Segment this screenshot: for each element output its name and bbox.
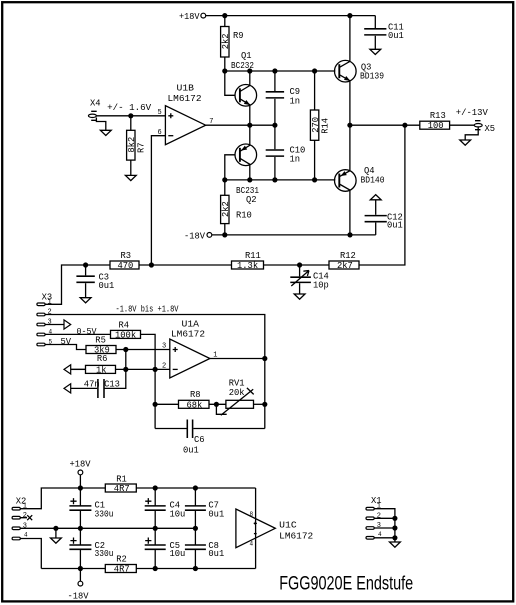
supply -18V bottom [68, 569, 90, 602]
capacitor C14 trimmer [290, 265, 329, 294]
wire R3 to R11 [139, 264, 232, 266]
ground below R7 [125, 175, 136, 180]
svg-text:LM6172: LM6172 [279, 531, 313, 541]
svg-text:10p: 10p [313, 280, 329, 290]
wire -18V rail [212, 234, 376, 236]
svg-text:7: 7 [209, 118, 213, 126]
wire R9 bottom to Q1 base branch [225, 57, 235, 95]
wire Q2 base branch [225, 155, 235, 180]
resistor R12 [329, 251, 359, 271]
node X1 pin4 [392, 535, 397, 540]
node C3 [83, 262, 88, 267]
svg-text:330u: 330u [95, 549, 114, 559]
arrow X3 pin3 [64, 320, 71, 329]
svg-text:R1: R1 [116, 475, 127, 485]
node C4/C5 mid [153, 526, 158, 531]
node C7/C8 mid [193, 526, 198, 531]
ground below C14 [294, 294, 305, 299]
wire C6 right lead [193, 428, 264, 430]
resistor R8 [179, 390, 210, 410]
node Q3/Q4 emitters [347, 123, 352, 128]
node RV1/output column [262, 402, 267, 407]
svg-text:68k: 68k [187, 400, 203, 410]
wire X3 pin4 to R4 [45, 333, 110, 335]
wire C13 left [71, 387, 97, 389]
capacitor C1 [69, 488, 113, 528]
capacitor C6 [183, 420, 205, 456]
wire X3 pin3 [45, 324, 64, 326]
connector X4 [88, 99, 152, 121]
svg-text:0u1: 0u1 [183, 446, 199, 456]
svg-text:100: 100 [428, 121, 444, 131]
svg-text:-18V: -18V [184, 231, 206, 241]
wire X2 pin4 to bottom rail [20, 539, 41, 569]
wire X2 pin2 nc [20, 515, 32, 520]
resistor R10 [221, 180, 252, 235]
svg-text:R14: R14 [320, 118, 330, 134]
svg-text:470: 470 [118, 261, 134, 271]
svg-text:3: 3 [377, 522, 381, 530]
svg-text:R3: R3 [121, 251, 132, 261]
svg-text:2: 2 [23, 512, 27, 520]
svg-text:330u: 330u [95, 509, 114, 519]
svg-text:R11: R11 [245, 251, 261, 261]
svg-text:1k: 1k [96, 366, 107, 376]
svg-text:U1B: U1B [177, 84, 195, 94]
wire Q1 collector line y=71 [225, 70, 335, 72]
svg-text:10u: 10u [170, 549, 186, 559]
wire X4 to pin 5 [96, 115, 165, 117]
node +18V rail [78, 485, 83, 490]
resistor R1 [105, 475, 136, 495]
svg-text:2: 2 [162, 363, 166, 371]
svg-text:3: 3 [48, 318, 52, 326]
node X4/R7 [128, 113, 133, 118]
svg-text:4: 4 [24, 531, 28, 538]
ground mid rail [51, 538, 62, 543]
svg-text:+18V: +18V [70, 460, 92, 470]
op-amp U1C power section [236, 488, 313, 569]
arrow at C13 [64, 384, 71, 393]
node R14 bottom [312, 177, 317, 182]
node Q2 collector [247, 177, 252, 182]
wire R12 to output node [359, 125, 405, 265]
node Q4 collector [347, 232, 352, 237]
wire X2 pin3 mid rail [20, 527, 195, 529]
svg-text:R4: R4 [119, 321, 130, 331]
svg-text:0u1: 0u1 [99, 281, 115, 291]
svg-text:R10: R10 [236, 211, 252, 221]
wire U1A output [210, 358, 265, 360]
capacitor C11 [364, 16, 404, 50]
svg-text:U1A: U1A [182, 320, 200, 330]
svg-text:R9: R9 [233, 31, 244, 41]
resistor R6 [86, 354, 116, 375]
svg-text:LM6172: LM6172 [168, 94, 202, 104]
capacitor C7 [185, 488, 224, 528]
connector X1 [366, 496, 382, 539]
wire X1 pin4 [374, 537, 395, 539]
node X1 pin3 [392, 525, 397, 530]
wire top rail [20, 488, 255, 509]
capacitor C10 [266, 125, 306, 180]
resistor R3 [110, 251, 139, 271]
svg-text:R8: R8 [190, 390, 201, 400]
node R6/C13 column [123, 367, 128, 372]
wire R6 to pin 2 [116, 368, 170, 370]
svg-text:+18V: +18V [179, 12, 200, 22]
resistor R7 [127, 116, 147, 176]
svg-text:R7: R7 [136, 142, 146, 153]
op-amp U1B [158, 84, 214, 145]
svg-text:U1C: U1C [279, 521, 297, 531]
capacitor C12 [365, 200, 403, 235]
svg-text:0u1: 0u1 [208, 549, 224, 559]
svg-text:C6: C6 [194, 435, 205, 445]
node C7 top [193, 485, 198, 490]
wire X1 pin2 [374, 517, 395, 519]
svg-text:0-5V: 0-5V [77, 327, 98, 337]
svg-text:LM6172: LM6172 [171, 330, 205, 340]
svg-text:-18V: -18V [68, 592, 90, 602]
svg-text:2k2: 2k2 [221, 201, 231, 217]
capacitor C9 [266, 71, 300, 125]
resistor R14 [310, 71, 330, 180]
wire R8 to RV1 [209, 403, 226, 405]
arrow at R6 [64, 365, 86, 374]
wire R11 to R12 [264, 264, 330, 266]
supply +18V bottom [70, 460, 92, 489]
ground below X5 [460, 140, 471, 145]
svg-text:10u: 10u [170, 509, 186, 519]
wire X3 pin5 to R5 [45, 345, 86, 350]
svg-text:20k: 20k [229, 388, 245, 398]
svg-text:4: 4 [250, 541, 254, 548]
wire bottom rail [41, 568, 255, 570]
connector X5 [456, 108, 495, 134]
transistor Q1 [231, 51, 257, 125]
node Q1 collector [247, 68, 252, 73]
wire feedback line left [45, 265, 110, 304]
svg-text:R5: R5 [95, 336, 106, 346]
svg-text:C13: C13 [104, 380, 120, 390]
wire X5 ground hook [465, 127, 478, 140]
svg-text:4R7: 4R7 [114, 565, 130, 575]
capacitor C13 [84, 379, 120, 398]
svg-text:0u1: 0u1 [388, 31, 404, 41]
svg-text:BD140: BD140 [361, 175, 385, 185]
node C10 bottom [272, 177, 277, 182]
svg-text:BC232: BC232 [231, 61, 254, 71]
wire R5 to pin 3 [116, 349, 170, 351]
svg-text:+/-13V: +/-13V [456, 108, 489, 118]
wire emitters mid line [206, 124, 275, 126]
svg-text:X5: X5 [485, 124, 496, 134]
wire +18V rail [206, 15, 376, 17]
svg-text:X4: X4 [90, 99, 101, 109]
ground above C12 [370, 195, 381, 200]
svg-text:4R7: 4R7 [114, 484, 130, 494]
resistor R13 [420, 111, 450, 131]
capacitor C3 [76, 265, 114, 298]
svg-text:FGG9020E Endstufe: FGG9020E Endstufe [279, 574, 413, 595]
capacitor C2 [69, 528, 113, 568]
capacitor C4 [145, 488, 186, 528]
node RV1 wiper [214, 402, 219, 407]
node C1 mid [78, 526, 83, 531]
svg-text:Q2: Q2 [246, 195, 257, 205]
node pin6 drop [149, 262, 154, 267]
svg-text:R2: R2 [116, 555, 127, 565]
node pin3 junction [123, 347, 128, 352]
resistor R4 [111, 321, 141, 341]
connector X2 [12, 496, 28, 539]
wire X1 pin1 [374, 509, 395, 542]
svg-text:R6: R6 [97, 354, 108, 364]
wire C6 left lead [155, 428, 187, 430]
capacitor C5 [145, 528, 186, 568]
node output/pin2 rail [262, 356, 267, 361]
svg-text:+/- 1.6V: +/- 1.6V [107, 103, 152, 113]
wire R4 to pin2 column [141, 334, 156, 428]
svg-text:1: 1 [23, 503, 27, 511]
node C9 top [272, 68, 277, 73]
resistor R5 [86, 336, 116, 356]
resistor R11 [232, 251, 264, 271]
svg-text:1.3k: 1.3k [237, 261, 258, 271]
svg-text:1: 1 [377, 503, 381, 511]
node Q1/Q2 emitters [247, 123, 252, 128]
svg-text:100k: 100k [115, 331, 136, 341]
transistor Q4 [335, 125, 385, 235]
svg-text:5V: 5V [61, 337, 72, 347]
node C9/C10 mid [272, 123, 277, 128]
svg-text:8: 8 [250, 511, 254, 518]
svg-text:2: 2 [377, 512, 381, 520]
wire R9 top lead [224, 16, 226, 27]
node R10 top [222, 177, 227, 182]
svg-text:0u1: 0u1 [387, 221, 403, 231]
wire Q2 collector line y=179.9 [225, 179, 335, 181]
supply +18V terminal [179, 12, 206, 22]
node C8 bottom [193, 566, 198, 571]
ground below X4 [100, 130, 111, 135]
node C5 bottom [153, 566, 158, 571]
resistor R2 [105, 555, 136, 575]
node C2 bottom [78, 566, 83, 571]
transistor Q3 [335, 16, 385, 126]
op-amp U1A [162, 320, 218, 379]
node R10 bottom [222, 232, 227, 237]
node R9/Q1 base line [222, 68, 227, 73]
potentiometer RV1 [216, 379, 253, 416]
node R8 left [153, 402, 158, 407]
svg-text:1n: 1n [290, 96, 301, 106]
ground X1 [390, 542, 401, 547]
wire pin 6 feedback drop [151, 136, 165, 265]
svg-text:0u1: 0u1 [208, 509, 224, 519]
node gnd stub [53, 526, 58, 531]
svg-text:1n: 1n [290, 155, 301, 165]
svg-text:3: 3 [162, 343, 166, 351]
svg-text:R13: R13 [430, 111, 446, 121]
connector X3 [37, 293, 53, 346]
svg-text:-1.8V bis +1.8V: -1.8V bis +1.8V [116, 305, 180, 315]
transistor Q2 [235, 125, 259, 205]
node output/feedback [402, 123, 407, 128]
svg-text:2k7: 2k7 [337, 261, 353, 271]
node C14 [297, 262, 302, 267]
wire X4 ground hook [96, 118, 105, 131]
wire R8 left lead [155, 403, 178, 405]
svg-text:4: 4 [378, 531, 382, 538]
svg-text:R12: R12 [340, 251, 356, 261]
node +18V/R9 junction [222, 13, 227, 18]
node R14 top [312, 68, 317, 73]
wire RV1 right [254, 403, 265, 405]
wire X3 pin2 rail [45, 315, 265, 429]
wire X1 pin3 [374, 527, 395, 529]
node X1 pin2 [392, 516, 397, 521]
svg-text:Q1: Q1 [241, 51, 252, 61]
resistor R9 [221, 27, 244, 58]
node +18V/Q3 collector [347, 13, 352, 18]
wire gnd stub [55, 528, 57, 538]
node C4 top [153, 485, 158, 490]
supply -18V terminal [184, 231, 212, 241]
svg-text:BD139: BD139 [360, 72, 384, 82]
svg-text:2k2: 2k2 [221, 33, 231, 49]
ground below C3 [80, 298, 91, 303]
svg-text:47n: 47n [84, 380, 100, 390]
wire pin3-pin2 column + C13 link [104, 350, 126, 389]
svg-text:2: 2 [48, 308, 52, 316]
capacitor C8 [185, 528, 224, 568]
node pin2/R4 column [153, 367, 158, 372]
svg-text:1: 1 [48, 299, 52, 307]
ground below C11 [370, 49, 381, 54]
wire output line [350, 124, 475, 126]
svg-text:3: 3 [23, 523, 27, 531]
